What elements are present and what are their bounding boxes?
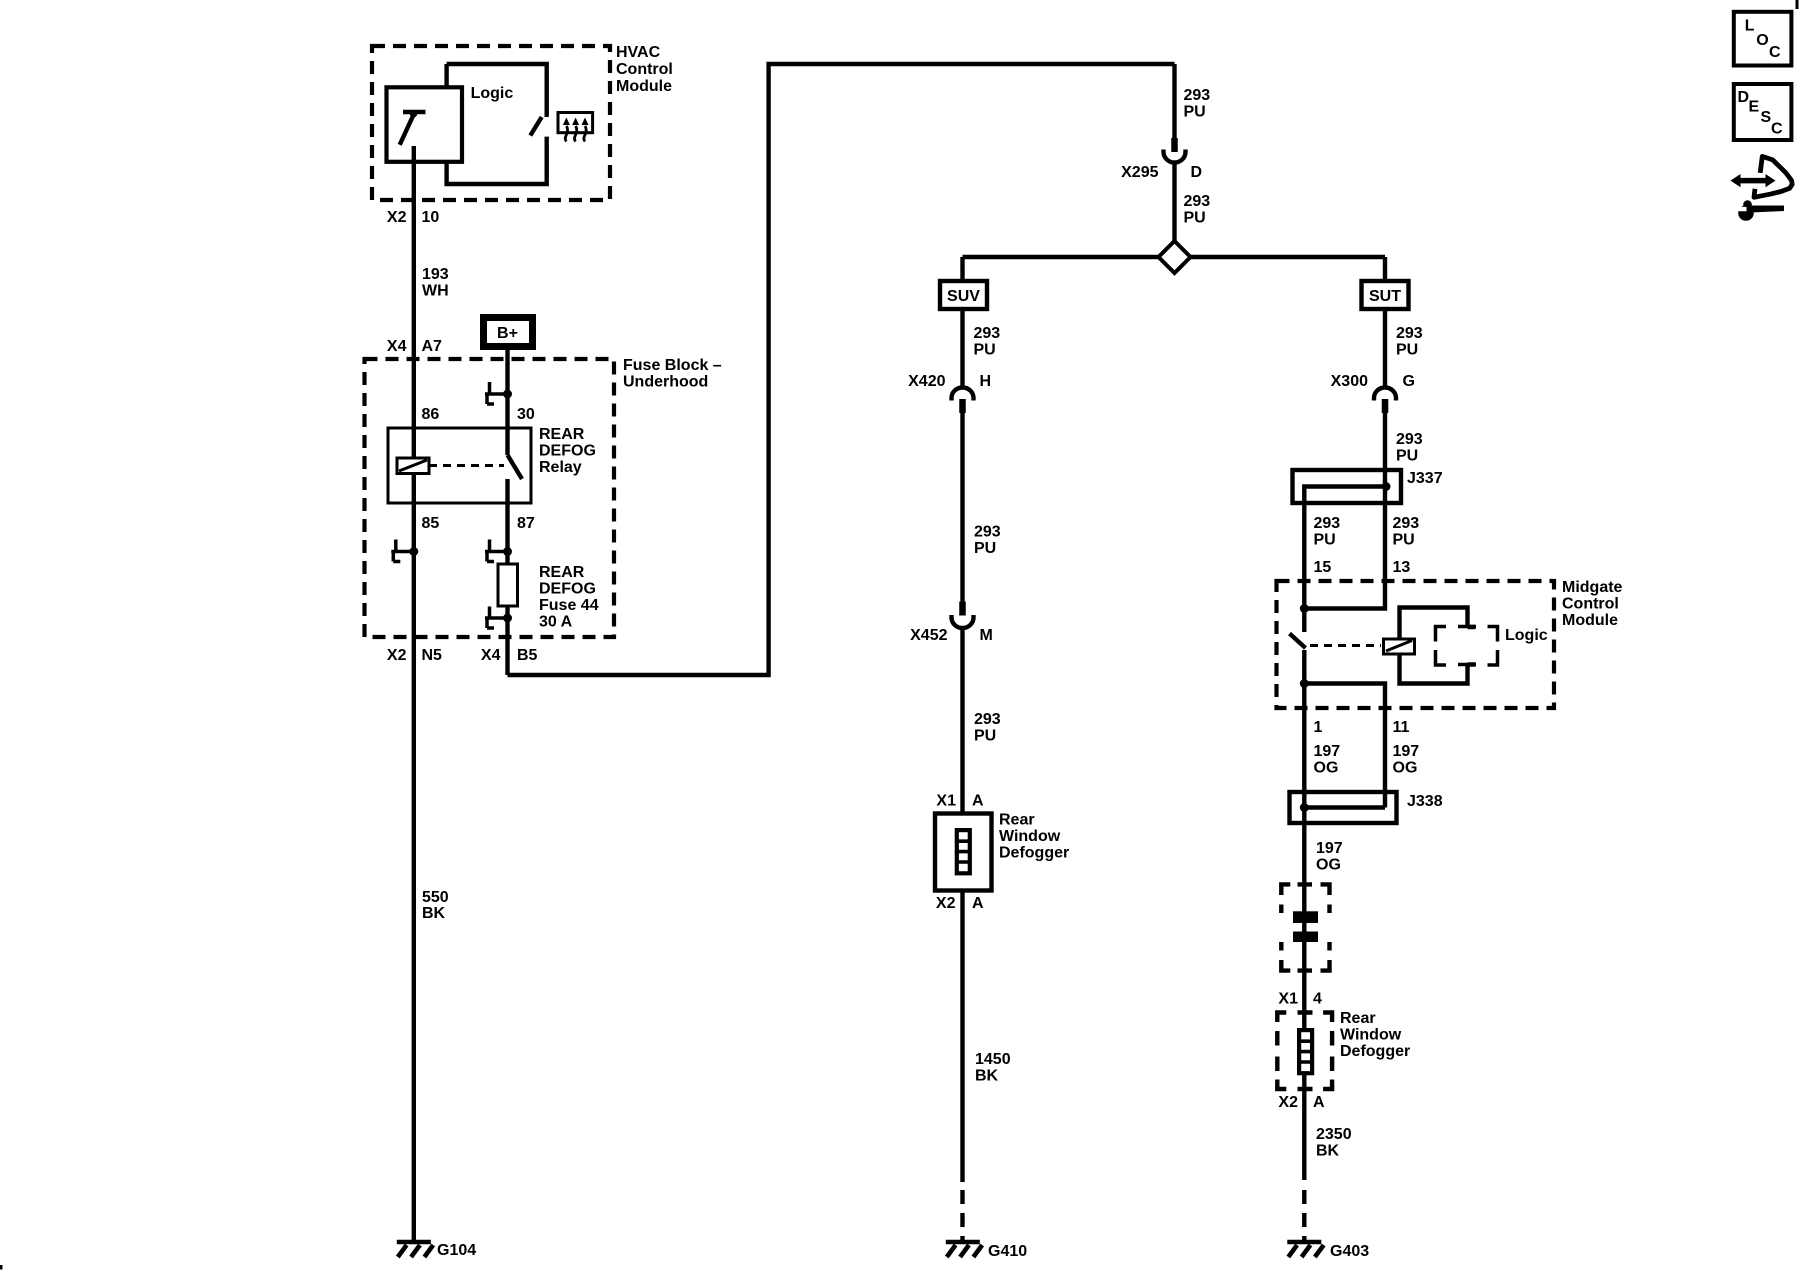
svg-text:B5: B5	[517, 647, 538, 664]
svg-text:C: C	[1769, 44, 1781, 61]
svg-text:BK: BK	[422, 905, 446, 922]
svg-text:PU: PU	[974, 540, 996, 557]
svg-text:PU: PU	[1393, 532, 1415, 549]
HVAC Control Module dashed box	[372, 44, 673, 200]
splice pack J338	[1290, 792, 1443, 823]
relay switch contact blade	[508, 455, 523, 479]
svg-text:1450: 1450	[975, 1051, 1011, 1068]
in-line connector X420 pin H	[908, 373, 991, 413]
svg-text:A: A	[1313, 1094, 1325, 1111]
wire label 293 PU (above J337)	[1396, 431, 1423, 465]
svg-text:G403: G403	[1330, 1243, 1369, 1260]
wire label 293 PU (SUV branch)	[974, 325, 1001, 359]
Fuse Block Underhood dashed box	[365, 357, 722, 637]
svg-text:E: E	[1749, 99, 1760, 116]
svg-text:293: 293	[1314, 515, 1341, 532]
svg-text:Defogger: Defogger	[999, 845, 1069, 862]
connector X4 pin B5 labels	[481, 647, 538, 664]
relay coil to contact dashed link	[429, 464, 504, 467]
wire label 293 PU (pin 13)	[1393, 515, 1420, 549]
ground G104	[397, 1242, 476, 1259]
svg-text:G104: G104	[437, 1242, 476, 1259]
svg-text:293: 293	[1184, 193, 1211, 210]
svg-text:OG: OG	[1393, 760, 1418, 777]
svg-text:293: 293	[974, 325, 1001, 342]
relay coil	[397, 458, 429, 474]
junction in J337	[1382, 482, 1391, 491]
wire from X295 to splice	[1172, 164, 1176, 242]
svg-text:4: 4	[1313, 991, 1322, 1008]
svg-text:1: 1	[1314, 719, 1323, 736]
svg-text:Control: Control	[1562, 596, 1619, 613]
connector X2 pin A labels	[936, 895, 984, 912]
connector X1 pin 4 labels	[1278, 991, 1322, 1008]
svg-text:87: 87	[517, 515, 535, 532]
connector X1 pin A labels	[936, 793, 984, 810]
Rear Window Defogger (SUT) dashed box	[1277, 1010, 1410, 1089]
svg-text:X2: X2	[936, 895, 956, 912]
svg-text:L: L	[1745, 18, 1755, 35]
svg-text:10: 10	[422, 209, 440, 226]
svg-text:293: 293	[1184, 87, 1211, 104]
connector X2 pin N5 labels	[387, 647, 442, 664]
svg-text:2350: 2350	[1316, 1126, 1352, 1143]
svg-text:Module: Module	[616, 78, 672, 95]
svg-text:550: 550	[422, 889, 449, 906]
svg-text:197: 197	[1314, 743, 1341, 760]
wire: J337 to pin 13	[1304, 487, 1385, 609]
in-line connector X295 pin D	[1121, 138, 1202, 181]
wire: J337 branch to pin 15	[1304, 487, 1386, 609]
splice diamond	[1159, 241, 1191, 273]
B+ power symbol	[484, 318, 533, 347]
svg-text:X420: X420	[908, 373, 945, 390]
svg-text:X300: X300	[1331, 373, 1368, 390]
svg-text:197: 197	[1393, 743, 1420, 760]
svg-text:J338: J338	[1407, 793, 1443, 810]
svg-text:A: A	[972, 793, 984, 810]
wire label 293 PU (lower SUV branch)	[974, 711, 1001, 745]
svg-text:REAR: REAR	[539, 426, 585, 443]
svg-text:Rear: Rear	[999, 812, 1035, 829]
svg-text:PU: PU	[974, 342, 996, 359]
wire: HVAC X2-10 output down left side to G104	[412, 146, 416, 1242]
wire label 293 PU (pin 15)	[1314, 515, 1341, 549]
svg-text:30: 30	[517, 406, 535, 423]
SUV option box	[940, 281, 987, 309]
svg-text:REAR: REAR	[539, 564, 585, 581]
connector X4 pin A7 labels	[387, 338, 442, 355]
HVAC switch input box	[387, 87, 463, 164]
HVAC logic box with switch contact	[447, 64, 547, 184]
svg-text:PU: PU	[1184, 210, 1206, 227]
svg-text:D: D	[1191, 164, 1203, 181]
dashed wire to G403	[1302, 1088, 1306, 1240]
svg-text:PU: PU	[1184, 104, 1206, 121]
defogger heating element (SUV)	[957, 830, 970, 873]
svg-text:N5: N5	[422, 647, 443, 664]
svg-text:BK: BK	[1316, 1143, 1340, 1160]
wire: defogger to ground (SUV)	[960, 891, 964, 1183]
midgate relay switch contact	[1290, 604, 1309, 688]
svg-text:197: 197	[1316, 840, 1343, 857]
svg-text:PU: PU	[1396, 342, 1418, 359]
svg-text:BK: BK	[975, 1068, 999, 1085]
svg-text:HVAC: HVAC	[616, 44, 661, 61]
ground G410	[946, 1242, 1027, 1260]
wire label 1450 BK	[975, 1051, 1011, 1085]
LOC legend box	[1734, 12, 1792, 66]
wire label 2350 BK	[1316, 1126, 1352, 1160]
svg-text:SUV: SUV	[947, 288, 980, 305]
svg-text:293: 293	[974, 711, 1001, 728]
wire label 197 OG (pin 11)	[1393, 743, 1420, 777]
ground G403	[1287, 1242, 1369, 1260]
REAR DEFOG Relay box	[388, 426, 596, 503]
wire label 193 WH	[422, 266, 449, 300]
svg-text:DEFOG: DEFOG	[539, 581, 596, 598]
harness routing icon (arrows and wrench)	[1730, 156, 1792, 220]
svg-text:Window: Window	[999, 828, 1061, 845]
splice pack J337	[1293, 470, 1443, 503]
svg-text:85: 85	[422, 515, 440, 532]
svg-text:PU: PU	[974, 728, 996, 745]
svg-text:SUT: SUT	[1369, 288, 1401, 305]
svg-text:Logic: Logic	[471, 85, 514, 102]
svg-text:293: 293	[1393, 515, 1420, 532]
svg-text:Relay: Relay	[539, 459, 582, 476]
svg-text:Rear: Rear	[1340, 1010, 1376, 1027]
Midgate Control Module dashed box	[1277, 579, 1623, 708]
HVAC defog indicator	[558, 113, 593, 142]
svg-text:A: A	[972, 895, 984, 912]
SUT option box	[1362, 281, 1409, 309]
in-line connector X300 pin G	[1331, 373, 1415, 413]
clip termination on pin 87 wire	[485, 540, 512, 562]
wire: X420 to X452	[960, 413, 964, 602]
midgate coil to contact dashed link	[1310, 644, 1381, 647]
Logic dashed box (midgate)	[1436, 627, 1548, 666]
svg-text:OG: OG	[1316, 857, 1341, 874]
svg-text:Logic: Logic	[1505, 627, 1548, 644]
svg-text:B+: B+	[497, 325, 518, 342]
wire label 197 OG (pin 1)	[1314, 743, 1341, 777]
svg-text:Fuse Block –: Fuse Block –	[623, 357, 722, 374]
defogger heating element (SUT)	[1299, 1030, 1312, 1073]
svg-text:Midgate: Midgate	[1562, 579, 1623, 596]
svg-text:A7: A7	[422, 338, 443, 355]
wire label 197 OG (below J338)	[1316, 840, 1343, 874]
in-line pass-through connector (dashed)	[1281, 884, 1329, 970]
svg-text:X1: X1	[936, 793, 956, 810]
wire: midgate pin 1 down through J338	[1302, 684, 1306, 1089]
svg-text:30 A: 30 A	[539, 614, 573, 631]
clip termination below fuse	[485, 607, 512, 629]
svg-text:13: 13	[1393, 559, 1411, 576]
svg-text:S: S	[1761, 109, 1772, 126]
svg-text:X4: X4	[481, 647, 501, 664]
wire label 293 PU (top of X295)	[1184, 87, 1211, 121]
svg-text:Control: Control	[616, 61, 673, 78]
wire label 293 PU (mid SUV branch)	[974, 524, 1001, 558]
wire: midgate bottom junction to pin 11	[1304, 684, 1385, 808]
splice bus wire	[963, 255, 1386, 259]
svg-text:Fuse 44: Fuse 44	[539, 597, 599, 614]
wire label 293 PU (below X295)	[1184, 193, 1211, 227]
wire: SUT box to X300	[1383, 309, 1387, 388]
svg-text:DEFOG: DEFOG	[539, 443, 596, 460]
connector X2 pin 10 labels	[387, 209, 439, 226]
svg-text:J337: J337	[1407, 470, 1443, 487]
clip termination on B+ wire	[485, 382, 512, 404]
Rear Window Defogger (SUV) box	[935, 812, 1069, 891]
svg-text:193: 193	[422, 266, 449, 283]
wire: splice to SUT	[1383, 257, 1387, 281]
REAR DEFOG Fuse 44 30 A	[498, 564, 599, 631]
clip termination on pin 85 wire	[391, 540, 418, 562]
svg-text:Underhood: Underhood	[623, 374, 708, 391]
DESC legend box	[1734, 84, 1792, 140]
in-line connector X452 pin M	[910, 602, 993, 645]
svg-text:86: 86	[422, 406, 440, 423]
svg-text:X452: X452	[910, 627, 947, 644]
svg-text:X2: X2	[1278, 1094, 1298, 1111]
svg-text:D: D	[1738, 89, 1750, 106]
svg-text:G: G	[1403, 373, 1415, 390]
dashed wire to G410	[960, 1190, 964, 1240]
wire: B+ feed through relay and fuse, over the top to X295	[508, 64, 1175, 675]
svg-text:11: 11	[1393, 719, 1410, 736]
svg-text:M: M	[980, 627, 993, 644]
svg-text:X2: X2	[387, 209, 407, 226]
svg-text:293: 293	[1396, 325, 1423, 342]
wire: X452 to rear window defogger	[960, 629, 964, 814]
svg-text:293: 293	[974, 524, 1001, 541]
svg-text:Defogger: Defogger	[1340, 1043, 1410, 1060]
svg-text:OG: OG	[1314, 760, 1339, 777]
svg-text:15: 15	[1314, 559, 1332, 576]
svg-text:PU: PU	[1396, 448, 1418, 465]
svg-text:PU: PU	[1314, 532, 1336, 549]
wire label 550 BK	[422, 889, 449, 922]
svg-text:WH: WH	[422, 283, 449, 300]
svg-text:H: H	[980, 373, 992, 390]
connector X2 pin A labels (SUT defogger)	[1278, 1094, 1325, 1111]
svg-text:X4: X4	[387, 338, 407, 355]
svg-text:O: O	[1756, 32, 1768, 49]
svg-text:X1: X1	[1278, 991, 1298, 1008]
svg-text:Window: Window	[1340, 1027, 1402, 1044]
wire: X300 to J337	[1383, 413, 1387, 487]
svg-text:C: C	[1771, 121, 1783, 138]
svg-text:X295: X295	[1121, 164, 1158, 181]
wire label 293 PU (SUT branch)	[1396, 325, 1423, 359]
svg-text:X2: X2	[387, 647, 407, 664]
svg-text:G410: G410	[988, 1243, 1027, 1260]
wire: SUV box to X420	[960, 309, 964, 388]
wire: splice to SUV	[960, 257, 964, 281]
svg-text:Module: Module	[1562, 612, 1618, 629]
page edge artifact	[0, 1265, 3, 1270]
midgate relay coil	[1384, 639, 1415, 654]
svg-text:293: 293	[1396, 431, 1423, 448]
midgate driver box	[1400, 608, 1476, 684]
